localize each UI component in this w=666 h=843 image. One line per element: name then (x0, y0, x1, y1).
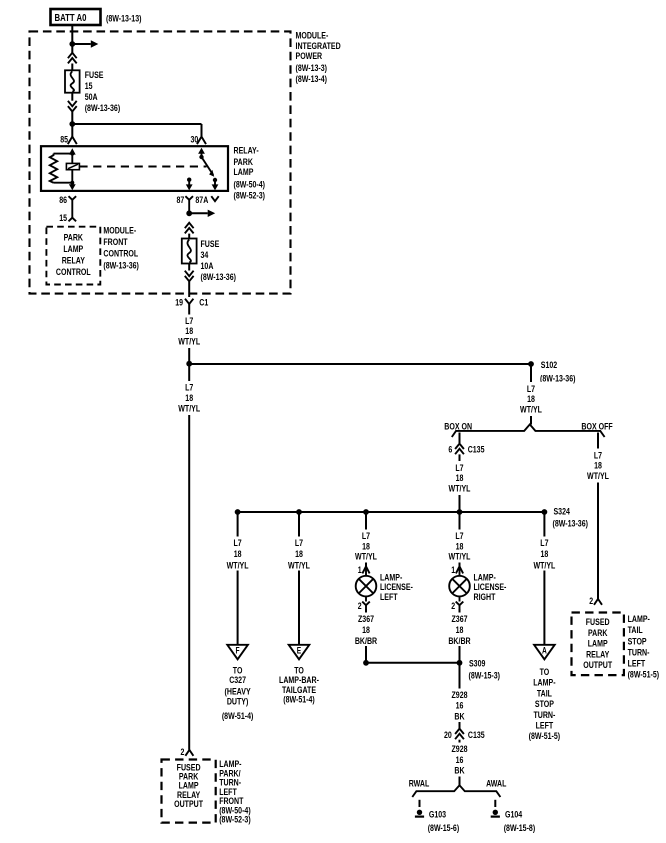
svg-text:FUSED: FUSED (586, 617, 610, 628)
wire to G103 (419, 800, 421, 807)
label FUSED PARK LAMP RELAY OUTPUT (174, 763, 203, 810)
wire to lamp left (365, 512, 367, 567)
svg-text:S324: S324 (554, 506, 571, 517)
svg-text:18: 18 (362, 625, 370, 636)
wire S324 to connector A (543, 512, 545, 645)
svg-text:15: 15 (59, 213, 67, 224)
wire label L7 18 WT/YL (530, 537, 558, 572)
pin 2 fused output left (181, 747, 194, 758)
svg-text:C1: C1 (199, 298, 209, 309)
relay coil top node dot (70, 152, 74, 156)
svg-text:RWAL: RWAL (409, 779, 430, 790)
connector F (227, 645, 248, 660)
svg-text:(8W-13-3): (8W-13-3) (296, 63, 328, 74)
svg-text:RELAY-: RELAY- (234, 146, 259, 157)
svg-text:CONTROL: CONTROL (56, 267, 91, 278)
svg-text:LAMP-: LAMP- (628, 614, 650, 625)
svg-text:POWER: POWER (296, 51, 323, 62)
connector A (534, 645, 555, 660)
label LAMP-PARK/TURN-LEFT FRONT (219, 759, 251, 826)
svg-text:(8W-15-6): (8W-15-6) (428, 823, 460, 834)
chevrons down fuse 34 (185, 271, 194, 282)
svg-text:C327: C327 (229, 675, 246, 686)
wire node to pin 30 (72, 124, 201, 137)
fused park lamp relay output dashed box left (162, 760, 216, 823)
label LAMP-LICENSE-RIGHT (474, 572, 507, 603)
junction dot ground bus left (363, 660, 369, 666)
svg-text:87: 87 (177, 195, 185, 206)
relay switch arm end dot (213, 178, 217, 182)
svg-text:1: 1 (451, 565, 455, 576)
wire label L7 18 WT/YL (517, 382, 545, 416)
relay resistor (50, 154, 73, 183)
svg-text:BK/BR: BK/BR (355, 636, 377, 647)
wire label L7 18 WT/YL (446, 461, 474, 495)
relay coil box (66, 163, 79, 169)
svg-text:FUSE: FUSE (201, 239, 220, 250)
wire label L7 18 WT/YL (352, 530, 380, 563)
svg-text:WT/YL: WT/YL (533, 560, 555, 571)
svg-text:LAMP: LAMP (588, 639, 608, 650)
svg-text:34: 34 (201, 250, 209, 261)
label FUSED PARK LAMP RELAY OUTPUT (583, 617, 612, 671)
junction dot bus-E (296, 509, 302, 515)
svg-text:Z928: Z928 (452, 744, 468, 755)
svg-text:WT/YL: WT/YL (520, 404, 542, 415)
svg-text:A: A (542, 646, 547, 656)
svg-text:86: 86 (59, 195, 67, 206)
wire label L7 18 WT/YL (224, 537, 252, 572)
svg-text:C135: C135 (468, 730, 485, 741)
svg-text:(8W-13-4): (8W-13-4) (296, 74, 328, 85)
svg-text:FRONT: FRONT (103, 237, 127, 248)
relay dashed actuator link (79, 166, 206, 168)
wire label Z928 16 BK (445, 743, 474, 777)
wire to G104 (494, 800, 496, 807)
svg-text:LAMP: LAMP (234, 167, 254, 178)
wire label Z367 18 BK/BR (352, 613, 381, 647)
svg-text:Z928: Z928 (452, 690, 468, 701)
label LAMP-LICENSE-LEFT (380, 572, 413, 603)
label MODULE-INTEGRATED POWER (296, 31, 341, 85)
label RWAL (409, 779, 430, 790)
wire to connector E (298, 512, 300, 645)
svg-text:WT/YL: WT/YL (449, 552, 471, 563)
lamp license right (449, 576, 470, 597)
label FUSE 15 50A (85, 70, 121, 114)
label MODULE-FRONT CONTROL (103, 225, 138, 271)
label AWAL (486, 779, 506, 790)
bracket box on/off (452, 424, 605, 437)
lamp pin 2 left (358, 596, 370, 612)
svg-text:18: 18 (456, 473, 464, 484)
wire box-off branch (597, 433, 599, 600)
svg-text:(8W-51-5): (8W-51-5) (628, 670, 660, 681)
pin 2 fused output right (589, 596, 602, 607)
svg-text:S102: S102 (541, 360, 557, 371)
svg-text:16: 16 (456, 755, 464, 766)
relay 87A throw arrow (212, 180, 219, 190)
label BOX ON (444, 422, 472, 433)
fused park lamp relay output dashed box right (572, 613, 624, 676)
splice S102 (528, 360, 575, 384)
relay switch pivot dot (199, 155, 203, 159)
svg-text:BK/BR: BK/BR (448, 636, 470, 647)
wire lamp right to S309 (459, 609, 461, 663)
pin 87A (195, 195, 218, 206)
svg-text:WT/YL: WT/YL (178, 336, 200, 347)
relay switch arrow up (198, 148, 205, 157)
pin 15 (59, 213, 76, 224)
svg-text:1: 1 (358, 565, 362, 576)
label PARK LAMP RELAY CONTROL (56, 232, 91, 277)
svg-text:16: 16 (456, 701, 464, 712)
svg-text:18: 18 (456, 625, 464, 636)
ground bus wire (366, 662, 460, 664)
pin 85 (60, 135, 77, 146)
splice S309 (457, 658, 500, 681)
svg-text:18: 18 (295, 549, 303, 560)
wire label Z367 18 BK/BR (445, 613, 474, 647)
svg-text:L7: L7 (295, 538, 303, 549)
wire label Z928 16 BK (445, 689, 474, 723)
wire label L7 18 WT/YL (175, 381, 203, 415)
svg-text:STOP: STOP (628, 636, 647, 647)
relay coil bottom node dot (70, 181, 74, 185)
svg-text:18: 18 (234, 549, 242, 560)
svg-text:G104: G104 (505, 809, 523, 820)
wire main down left (188, 364, 190, 750)
svg-text:PARK: PARK (64, 232, 83, 243)
lamp license left (356, 576, 377, 597)
wire to connector F (237, 512, 239, 645)
svg-text:(8W-13-36): (8W-13-36) (103, 260, 138, 271)
label TO LAMP-TAIL STOP TURN-LEFT (529, 667, 561, 742)
svg-text:LEFT: LEFT (536, 721, 554, 732)
svg-text:6: 6 (448, 445, 452, 456)
junction dot fuse 15 output (69, 121, 75, 127)
wire to lamp right (459, 512, 461, 567)
pin 87 (177, 195, 194, 214)
relay 87 contact dot (187, 178, 191, 182)
module-integrated power dashed box (30, 31, 291, 293)
ground G104 (491, 809, 536, 834)
connector C135 pin 20 (444, 729, 485, 742)
wire BATT to junction (71, 25, 73, 53)
svg-text:2: 2 (589, 596, 593, 607)
svg-text:WT/YL: WT/YL (449, 484, 471, 495)
svg-text:S309: S309 (469, 658, 485, 669)
svg-text:2: 2 (451, 601, 455, 612)
svg-text:RELAY: RELAY (62, 255, 86, 266)
arrow 87 feed right (191, 210, 215, 217)
wire lamp left to ground bus (365, 609, 367, 663)
wire chevrons to fuse 15 (71, 64, 73, 71)
svg-text:OUTPUT: OUTPUT (583, 660, 612, 671)
connector E (289, 645, 310, 660)
svg-text:TURN-: TURN- (628, 647, 650, 658)
svg-text:LEFT: LEFT (380, 592, 398, 603)
wire S309 down (459, 663, 461, 729)
pin 30 (191, 135, 207, 146)
svg-text:AWAL: AWAL (486, 779, 506, 790)
svg-text:L7: L7 (540, 538, 548, 549)
svg-text:15: 15 (85, 81, 93, 92)
svg-text:LEFT: LEFT (628, 659, 646, 670)
label (8W-13-13) (106, 13, 142, 24)
relay 87 contact arrow (186, 180, 193, 191)
svg-text:(8W-13-36): (8W-13-36) (85, 103, 121, 114)
svg-text:10A: 10A (201, 261, 214, 272)
wire C135 to ground bracket (459, 740, 461, 786)
svg-text:19: 19 (175, 298, 183, 309)
svg-text:2: 2 (181, 747, 185, 758)
svg-text:WT/YL: WT/YL (355, 552, 377, 563)
label BOX OFF (581, 422, 612, 433)
svg-text:(8W-52-3): (8W-52-3) (234, 191, 266, 202)
svg-text:Z367: Z367 (358, 614, 374, 625)
svg-text:TAIL: TAIL (537, 688, 552, 699)
svg-text:RIGHT: RIGHT (474, 592, 496, 603)
wire label L7 18 WT/YL (285, 537, 313, 572)
svg-text:CONTROL: CONTROL (103, 249, 138, 260)
svg-text:(8W-13-36): (8W-13-36) (201, 272, 237, 283)
relay coil arrow down (69, 184, 76, 190)
svg-text:(8W-51-4): (8W-51-4) (222, 711, 254, 722)
svg-text:L7: L7 (234, 538, 242, 549)
svg-text:RELAY: RELAY (586, 649, 610, 660)
svg-text:MODULE-: MODULE- (103, 225, 136, 236)
svg-text:F: F (236, 646, 240, 656)
label FUSE 34 10A (201, 239, 237, 283)
svg-text:85: 85 (60, 135, 68, 146)
svg-text:BATT A0: BATT A0 (55, 12, 87, 24)
wire S102 down (530, 364, 532, 425)
lamp pin 1 right (451, 565, 463, 576)
wire box-on branch (459, 433, 461, 444)
wire label L7 18 WT/YL (446, 530, 474, 563)
junction dot 87 output (186, 210, 192, 216)
pin 86 (59, 195, 76, 218)
lamp pin 2 right (451, 596, 463, 612)
wire C1 down (188, 304, 190, 364)
svg-text:L7: L7 (455, 463, 463, 474)
svg-text:(8W-15-8): (8W-15-8) (504, 823, 536, 834)
connector C135 pin 6 (448, 444, 485, 456)
svg-text:PARK: PARK (588, 628, 607, 639)
svg-text:PARK: PARK (234, 157, 253, 168)
svg-text:BK: BK (454, 711, 464, 722)
svg-text:18: 18 (594, 461, 602, 472)
wire fuse 15 to node (71, 93, 73, 137)
connector C1 pin 19 (175, 298, 209, 309)
bracket rwal/awal (412, 785, 500, 797)
svg-text:TAIL: TAIL (628, 625, 643, 636)
svg-text:WT/YL: WT/YL (227, 560, 249, 571)
park lamp relay control dashed box (46, 227, 100, 285)
relay coil arrow up (69, 148, 76, 163)
svg-text:(8W-15-3): (8W-15-3) (469, 671, 501, 682)
lamp pin 1 left (358, 565, 370, 576)
svg-text:OUTPUT: OUTPUT (174, 799, 203, 810)
svg-text:TURN-: TURN- (533, 710, 555, 721)
svg-text:18: 18 (541, 549, 549, 560)
svg-text:LAMP-: LAMP- (533, 678, 555, 689)
svg-text:(8W-13-36): (8W-13-36) (540, 373, 576, 384)
svg-text:Z367: Z367 (452, 614, 468, 625)
svg-text:TO: TO (540, 667, 550, 678)
svg-text:STOP: STOP (535, 699, 554, 710)
svg-text:(8W-51-5): (8W-51-5) (529, 731, 561, 742)
svg-text:2: 2 (358, 601, 362, 612)
relay switch arm (202, 157, 215, 177)
svg-text:G103: G103 (429, 809, 446, 820)
fuse 15 (65, 70, 80, 92)
junction dot bus-F (235, 509, 241, 515)
svg-text:20: 20 (444, 730, 452, 741)
svg-text:BK: BK (454, 766, 464, 777)
svg-text:L7: L7 (594, 450, 602, 461)
wire junction to S102 (189, 363, 531, 365)
junction dot bus-lamp-right (457, 509, 463, 515)
bus park lamp feed (238, 511, 545, 513)
label LAMP-TAIL STOP TURN-LEFT (628, 614, 660, 681)
svg-text:LAMP: LAMP (63, 244, 83, 255)
wire C135 to bus (459, 454, 461, 512)
svg-text:(8W-52-3): (8W-52-3) (219, 815, 251, 826)
svg-text:(8W-50-4): (8W-50-4) (234, 179, 266, 190)
battery feed B+ box BATT A0 (51, 9, 101, 25)
svg-text:E: E (297, 646, 301, 656)
fuse 34 (182, 239, 197, 264)
label TO LAMP-BAR-TAILGATE (279, 665, 319, 705)
svg-text:(8W-51-4): (8W-51-4) (283, 695, 315, 706)
relay box RELAY-PARK LAMP (41, 146, 228, 191)
svg-text:WT/YL: WT/YL (288, 560, 310, 571)
svg-text:50A: 50A (85, 92, 98, 103)
wire fuse 34 to C1 (188, 264, 190, 298)
label RELAY-PARK LAMP (234, 146, 266, 202)
svg-text:WT/YL: WT/YL (587, 471, 609, 482)
svg-text:WT/YL: WT/YL (178, 403, 200, 414)
splice S324 (542, 506, 589, 529)
chevrons up fuse 34 (185, 223, 194, 234)
current direction chevrons down (68, 101, 77, 112)
wire to fuse 34 (188, 234, 190, 239)
svg-text:DUTY): DUTY) (227, 697, 249, 708)
ground G103 (415, 809, 459, 834)
junction dot at BATT feed (69, 41, 75, 47)
junction dot S-feed (186, 361, 192, 367)
wire label L7 18 WT/YL (584, 449, 612, 483)
label TO C327 (222, 665, 254, 722)
svg-text:87A: 87A (195, 195, 208, 206)
wire label L7 18 WT/YL (175, 315, 203, 349)
arrow feed right (74, 40, 98, 47)
current direction chevrons up (68, 53, 77, 64)
relay coil wire lower (71, 170, 73, 184)
junction dot bus-lamp-left (363, 509, 369, 515)
svg-text:C135: C135 (468, 445, 485, 456)
svg-text:FUSE: FUSE (85, 70, 104, 81)
svg-text:(8W-13-13): (8W-13-13) (106, 13, 142, 24)
svg-text:(8W-13-36): (8W-13-36) (553, 518, 589, 529)
